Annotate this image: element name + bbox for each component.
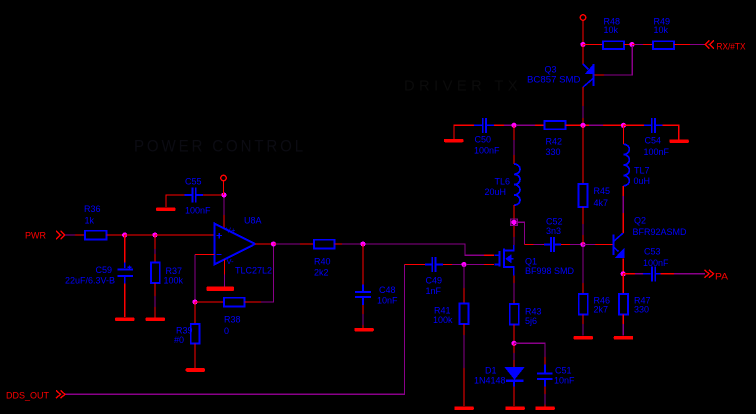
ground (R46)	[574, 336, 594, 340]
wire junction to C48	[362, 244, 364, 285]
svg-text:RX/#TX: RX/#TX	[717, 42, 747, 53]
node junction R48/Q3 emitter	[580, 42, 585, 47]
wire emitter junction to C53	[623, 273, 635, 275]
wire junction to C52	[516, 222, 544, 244]
svg-text:Q1: Q1	[525, 257, 537, 267]
resistor R45 4k7	[579, 184, 611, 208]
svg-text:Q3: Q3	[545, 65, 557, 75]
svg-text:DRIVER TX: DRIVER TX	[404, 78, 522, 95]
wire supply to junction	[582, 21, 584, 45]
wire R45 to base junction	[582, 207, 584, 245]
svg-text:100nF: 100nF	[643, 258, 669, 268]
wire C49 to gate1 junction	[443, 264, 462, 266]
transistor Q1 BF998 SMD (dual-gate MOSFET)	[495, 245, 575, 276]
svg-text:C55: C55	[185, 177, 202, 187]
svg-text:10nF: 10nF	[377, 296, 398, 306]
wire R42 to rail junction	[566, 124, 624, 126]
wire C50 to TL6 junction	[494, 124, 504, 126]
capacitor C52 3n3	[544, 217, 563, 253]
wire base junction to Q2	[583, 244, 595, 246]
wire junction to R48	[583, 44, 603, 46]
wire R40 to C48 junction	[335, 243, 343, 245]
svg-text:R37: R37	[166, 266, 183, 276]
svg-text:3n3: 3n3	[546, 226, 561, 236]
wire junction to R49	[632, 44, 653, 46]
ground (R37)	[146, 318, 166, 322]
wire junction to op-amp plus input	[155, 234, 215, 236]
node junction C55/V+	[221, 192, 226, 197]
wire minus input	[195, 254, 215, 256]
svg-text:2k7: 2k7	[594, 305, 609, 315]
node junction C49/R41/gate1	[461, 262, 466, 267]
wire R48 to junction	[624, 44, 632, 46]
svg-text:TL7: TL7	[634, 166, 650, 176]
svg-text:V+: V+	[226, 226, 236, 235]
svg-text:R41: R41	[434, 306, 451, 316]
node junction R40/C48	[360, 241, 365, 246]
svg-text:1nF: 1nF	[426, 286, 442, 296]
ground (R41)	[454, 407, 474, 411]
svg-text:PWR: PWR	[25, 231, 46, 242]
wire C53 to port PA	[661, 273, 705, 275]
svg-text:BFR92ASMD: BFR92ASMD	[633, 227, 688, 237]
capacitor C51 10nF	[537, 365, 575, 387]
resistor R40 2k2	[314, 240, 335, 278]
wire R39 to ground	[194, 344, 196, 369]
wire C55 to ground	[166, 195, 185, 207]
capacitor C55 100nF	[185, 177, 212, 216]
ground (D1)	[505, 407, 525, 411]
resistor R39 #0	[174, 324, 200, 345]
node junction rail/TL7	[621, 123, 626, 128]
ground (op-amp)	[207, 287, 235, 292]
svg-text:BC857 SMD: BC857 SMD	[527, 75, 581, 85]
port DDS_OUT	[6, 391, 65, 402]
svg-text:TLC27L2: TLC27L2	[235, 266, 272, 276]
svg-text:100k: 100k	[164, 276, 184, 286]
wire op-amp output	[255, 243, 274, 245]
ground (R47)	[614, 336, 634, 340]
wire R47 to ground	[622, 315, 624, 336]
ground (R39)	[186, 368, 206, 372]
wire rail junction down to TL6	[513, 125, 515, 164]
svg-text:C52: C52	[546, 217, 563, 227]
wire R40 junction to Q1 gate2	[365, 244, 494, 255]
wire output junction to R40	[274, 243, 277, 245]
svg-text:C59: C59	[96, 265, 113, 275]
transistor Q3 BC857 SMD (PNP)	[527, 64, 594, 88]
svg-text:R45: R45	[594, 186, 611, 196]
wire C52 to base junction	[561, 244, 570, 246]
diode D1 1N4148	[474, 366, 525, 386]
inductor TL6 20uH	[485, 164, 521, 205]
resistor R49 10k	[653, 17, 674, 50]
ground (rail left)	[444, 125, 474, 142]
wire junction to R38	[195, 301, 224, 303]
svg-text:10k: 10k	[654, 25, 669, 35]
wire D1 to ground	[513, 382, 515, 387]
ground (C48)	[354, 328, 374, 332]
svg-text:100nF: 100nF	[644, 147, 670, 157]
wire C54 to ground	[663, 125, 679, 139]
wire R38 to output junction	[245, 246, 274, 302]
wire DDS_OUT riser to C49	[66, 265, 425, 395]
resistor R48 10k	[603, 17, 624, 50]
svg-text:BF998 SMD: BF998 SMD	[525, 266, 575, 276]
wire rail to R45	[582, 125, 584, 184]
svg-text:100nF: 100nF	[474, 146, 500, 156]
wire to R37 junction	[125, 234, 155, 236]
wire junction to op-amp V+	[223, 198, 225, 216]
svg-text:D1: D1	[485, 366, 497, 376]
resistor R43 5j6	[510, 304, 542, 326]
svg-text:DDS_OUT: DDS_OUT	[6, 391, 49, 402]
resistor R41 100k	[433, 304, 469, 326]
svg-text:POWER CONTROL: POWER CONTROL	[134, 137, 306, 156]
svg-text:22uF/6.3V-B: 22uF/6.3V-B	[65, 276, 115, 286]
svg-text:1k: 1k	[85, 216, 95, 226]
wire junction to R42	[516, 124, 535, 126]
wire Q3 base to junction	[595, 74, 605, 76]
wire base junction to R46	[582, 245, 584, 284]
svg-text:R43: R43	[525, 307, 542, 317]
svg-text:2k2: 2k2	[314, 268, 329, 278]
wire junction to D1	[513, 343, 515, 353]
svg-text:Q2: Q2	[634, 216, 646, 226]
node junction emitter/C53/R47	[621, 271, 626, 276]
wire junction to R41	[463, 265, 465, 304]
svg-text:1N4148: 1N4148	[474, 376, 506, 386]
resistor R37 100k	[151, 235, 184, 318]
node junction R43/D1/C51	[511, 341, 516, 346]
wire Q1 source to R43	[513, 276, 515, 305]
svg-text:R39: R39	[176, 326, 193, 336]
wire C51 to ground	[544, 387, 546, 395]
wire junction to Q1 drain	[513, 226, 515, 245]
svg-text:C49: C49	[426, 276, 443, 286]
wire R43 to D1 junction	[513, 325, 515, 344]
node junction TL6/Q1 drain/C52 (with marker)	[511, 219, 517, 225]
node junction rail/Q3 collector	[580, 123, 585, 128]
wire junction to Q1 gate1	[466, 264, 494, 266]
svg-text:PA: PA	[715, 272, 729, 283]
svg-text:5j6: 5j6	[525, 316, 537, 326]
wire Q3 collector down to rail	[582, 87, 584, 125]
svg-text:10k: 10k	[604, 25, 619, 35]
wire R49 to port RX/#TX	[674, 44, 704, 46]
port PA	[705, 270, 729, 283]
wire TL7 to Q2 collector	[622, 125, 624, 233]
node junction rail/TL6	[511, 123, 516, 128]
ground (C51)	[535, 407, 555, 411]
svg-text:20uH: 20uH	[485, 187, 507, 197]
wire R46 to ground	[582, 315, 584, 336]
svg-text:R42: R42	[546, 137, 563, 147]
svg-text:0uH: 0uH	[634, 176, 651, 186]
capacitor C50 100nF	[474, 118, 500, 156]
wire emitter junction to R47	[622, 274, 624, 294]
svg-text:C53: C53	[644, 247, 661, 257]
resistor R38 0	[224, 298, 245, 336]
wire junction to Q3 emitter	[582, 45, 584, 65]
svg-text:10nF: 10nF	[554, 376, 575, 386]
wire Q2 emitter down	[622, 258, 624, 274]
svg-text:100k: 100k	[433, 315, 453, 325]
op-amp U8A TLC27L2	[215, 216, 273, 276]
wire junction to C54	[623, 124, 644, 126]
svg-text:C51: C51	[555, 366, 572, 376]
wire R41 to ground	[463, 324, 465, 406]
node junction R38/R39/feedback	[192, 299, 197, 304]
inductor TL7 0uH	[623, 144, 650, 186]
wire TL6 to drain junction	[513, 205, 515, 222]
svg-text:0: 0	[224, 326, 229, 336]
svg-text:330: 330	[634, 305, 649, 315]
capacitor C48 10nF	[355, 285, 398, 306]
wire PWR to R36	[65, 234, 75, 236]
supply terminal circle (top)	[580, 15, 586, 21]
node junction C52/R45/R46/Q2 base	[580, 242, 585, 247]
wire feedback left leg	[194, 255, 196, 303]
svg-text:R40: R40	[314, 257, 331, 267]
svg-text:C48: C48	[379, 285, 396, 295]
resistor R42 330	[545, 121, 566, 157]
capacitor C49 1nF	[425, 257, 443, 296]
svg-text:#0: #0	[174, 335, 184, 345]
port PWR	[25, 231, 65, 242]
wire C55 to junction	[203, 194, 224, 196]
ground (C59)	[115, 318, 135, 322]
ground (right of C54)	[669, 139, 689, 143]
wire R36 to C59 junction	[107, 234, 125, 236]
svg-text:R38: R38	[224, 315, 241, 325]
node junction R48/R49/Q3 base	[629, 42, 634, 47]
svg-text:C50: C50	[475, 135, 492, 145]
resistor R46 2k7	[579, 294, 610, 315]
node junction R37	[152, 232, 157, 237]
transistor Q2 BFR92ASMD (NPN)	[614, 216, 687, 259]
ground (C55)	[156, 208, 176, 212]
wire terminal to junction	[223, 181, 225, 195]
svg-text:R36: R36	[84, 204, 101, 214]
svg-text:U8A: U8A	[244, 216, 262, 226]
capacitor C54 100nF	[644, 118, 670, 157]
svg-text:TL6: TL6	[495, 177, 511, 187]
resistor R36 1k	[84, 204, 107, 240]
wire op-amp V- pin to ground	[224, 260, 226, 275]
resistor R47 330	[619, 294, 651, 315]
supply terminal circle (C55)	[221, 175, 227, 181]
capacitor C59 22uF/6.3V B (electrolytic)	[65, 235, 133, 317]
svg-text:4k7: 4k7	[594, 198, 609, 208]
node junction output/feedback	[271, 241, 276, 246]
svg-text:330: 330	[546, 147, 561, 157]
wire junction to C51	[514, 343, 545, 357]
svg-text:C54: C54	[645, 136, 662, 146]
wire C48 to ground	[362, 305, 364, 314]
wire junction to R39	[194, 302, 196, 324]
svg-text:V-: V-	[227, 257, 235, 266]
node junction C59	[122, 232, 127, 237]
capacitor C53 100nF	[643, 247, 669, 282]
svg-text:100nF: 100nF	[185, 206, 211, 216]
port RX/#TX	[705, 41, 746, 53]
